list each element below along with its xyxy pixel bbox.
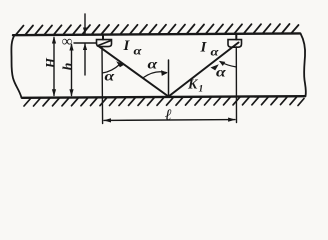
dimension l line: [104, 119, 235, 122]
arrowhead on right ray: [211, 64, 219, 70]
svg-text:1: 1: [199, 85, 204, 95]
top wall line: [13, 33, 300, 35]
svg-text:H: H: [42, 57, 57, 69]
right angle arc: [220, 62, 236, 68]
svg-text:I: I: [123, 38, 131, 54]
bottom wall hatching: [24, 97, 304, 106]
gap dimension upper line: [84, 14, 86, 34]
svg-text:ℓ: ℓ: [164, 107, 172, 124]
svg-text:I: I: [200, 40, 208, 56]
transducer face extension line: [74, 42, 97, 44]
dimension h line: [71, 45, 73, 96]
top wall hatching: [16, 24, 299, 35]
arrowhead H bottom: [52, 89, 56, 96]
svg-text:α: α: [211, 45, 220, 59]
arrowhead H top: [52, 36, 56, 43]
right extension line below transducer: [235, 47, 237, 123]
right ray: [169, 43, 239, 97]
arrowhead h top: [69, 43, 73, 50]
center angle arc: [144, 72, 167, 78]
left transducer U1: [102, 35, 104, 40]
arrowhead l right: [228, 118, 235, 122]
bottom wall line: [22, 96, 305, 98]
svg-text:K: K: [187, 78, 199, 93]
dimension H line: [53, 38, 55, 96]
arrowhead on left ray: [116, 61, 124, 67]
svg-text:α: α: [105, 69, 115, 84]
arrowhead gap top (down): [83, 28, 87, 35]
left ray: [100, 47, 169, 97]
arrowhead l left: [104, 118, 111, 122]
left break (wavy) line: [11, 35, 21, 98]
left extension line below transducer: [101, 47, 104, 124]
gap dimension lower line: [84, 44, 86, 75]
arrowhead right arc: [219, 61, 225, 66]
left angle arc: [102, 65, 119, 74]
arrowhead gap bottom (up): [83, 43, 87, 50]
svg-text:α: α: [148, 57, 158, 72]
arrowhead h bottom: [69, 89, 73, 96]
right transducer U2: [235, 35, 237, 40]
center normal line: [168, 60, 170, 97]
svg-text:h: h: [61, 62, 76, 70]
svg-text:α: α: [216, 65, 226, 80]
svg-text:∞: ∞: [62, 34, 73, 50]
arrowhead center arc: [161, 70, 168, 76]
svg-text:α: α: [134, 44, 143, 58]
right break (wavy) line: [301, 33, 306, 96]
